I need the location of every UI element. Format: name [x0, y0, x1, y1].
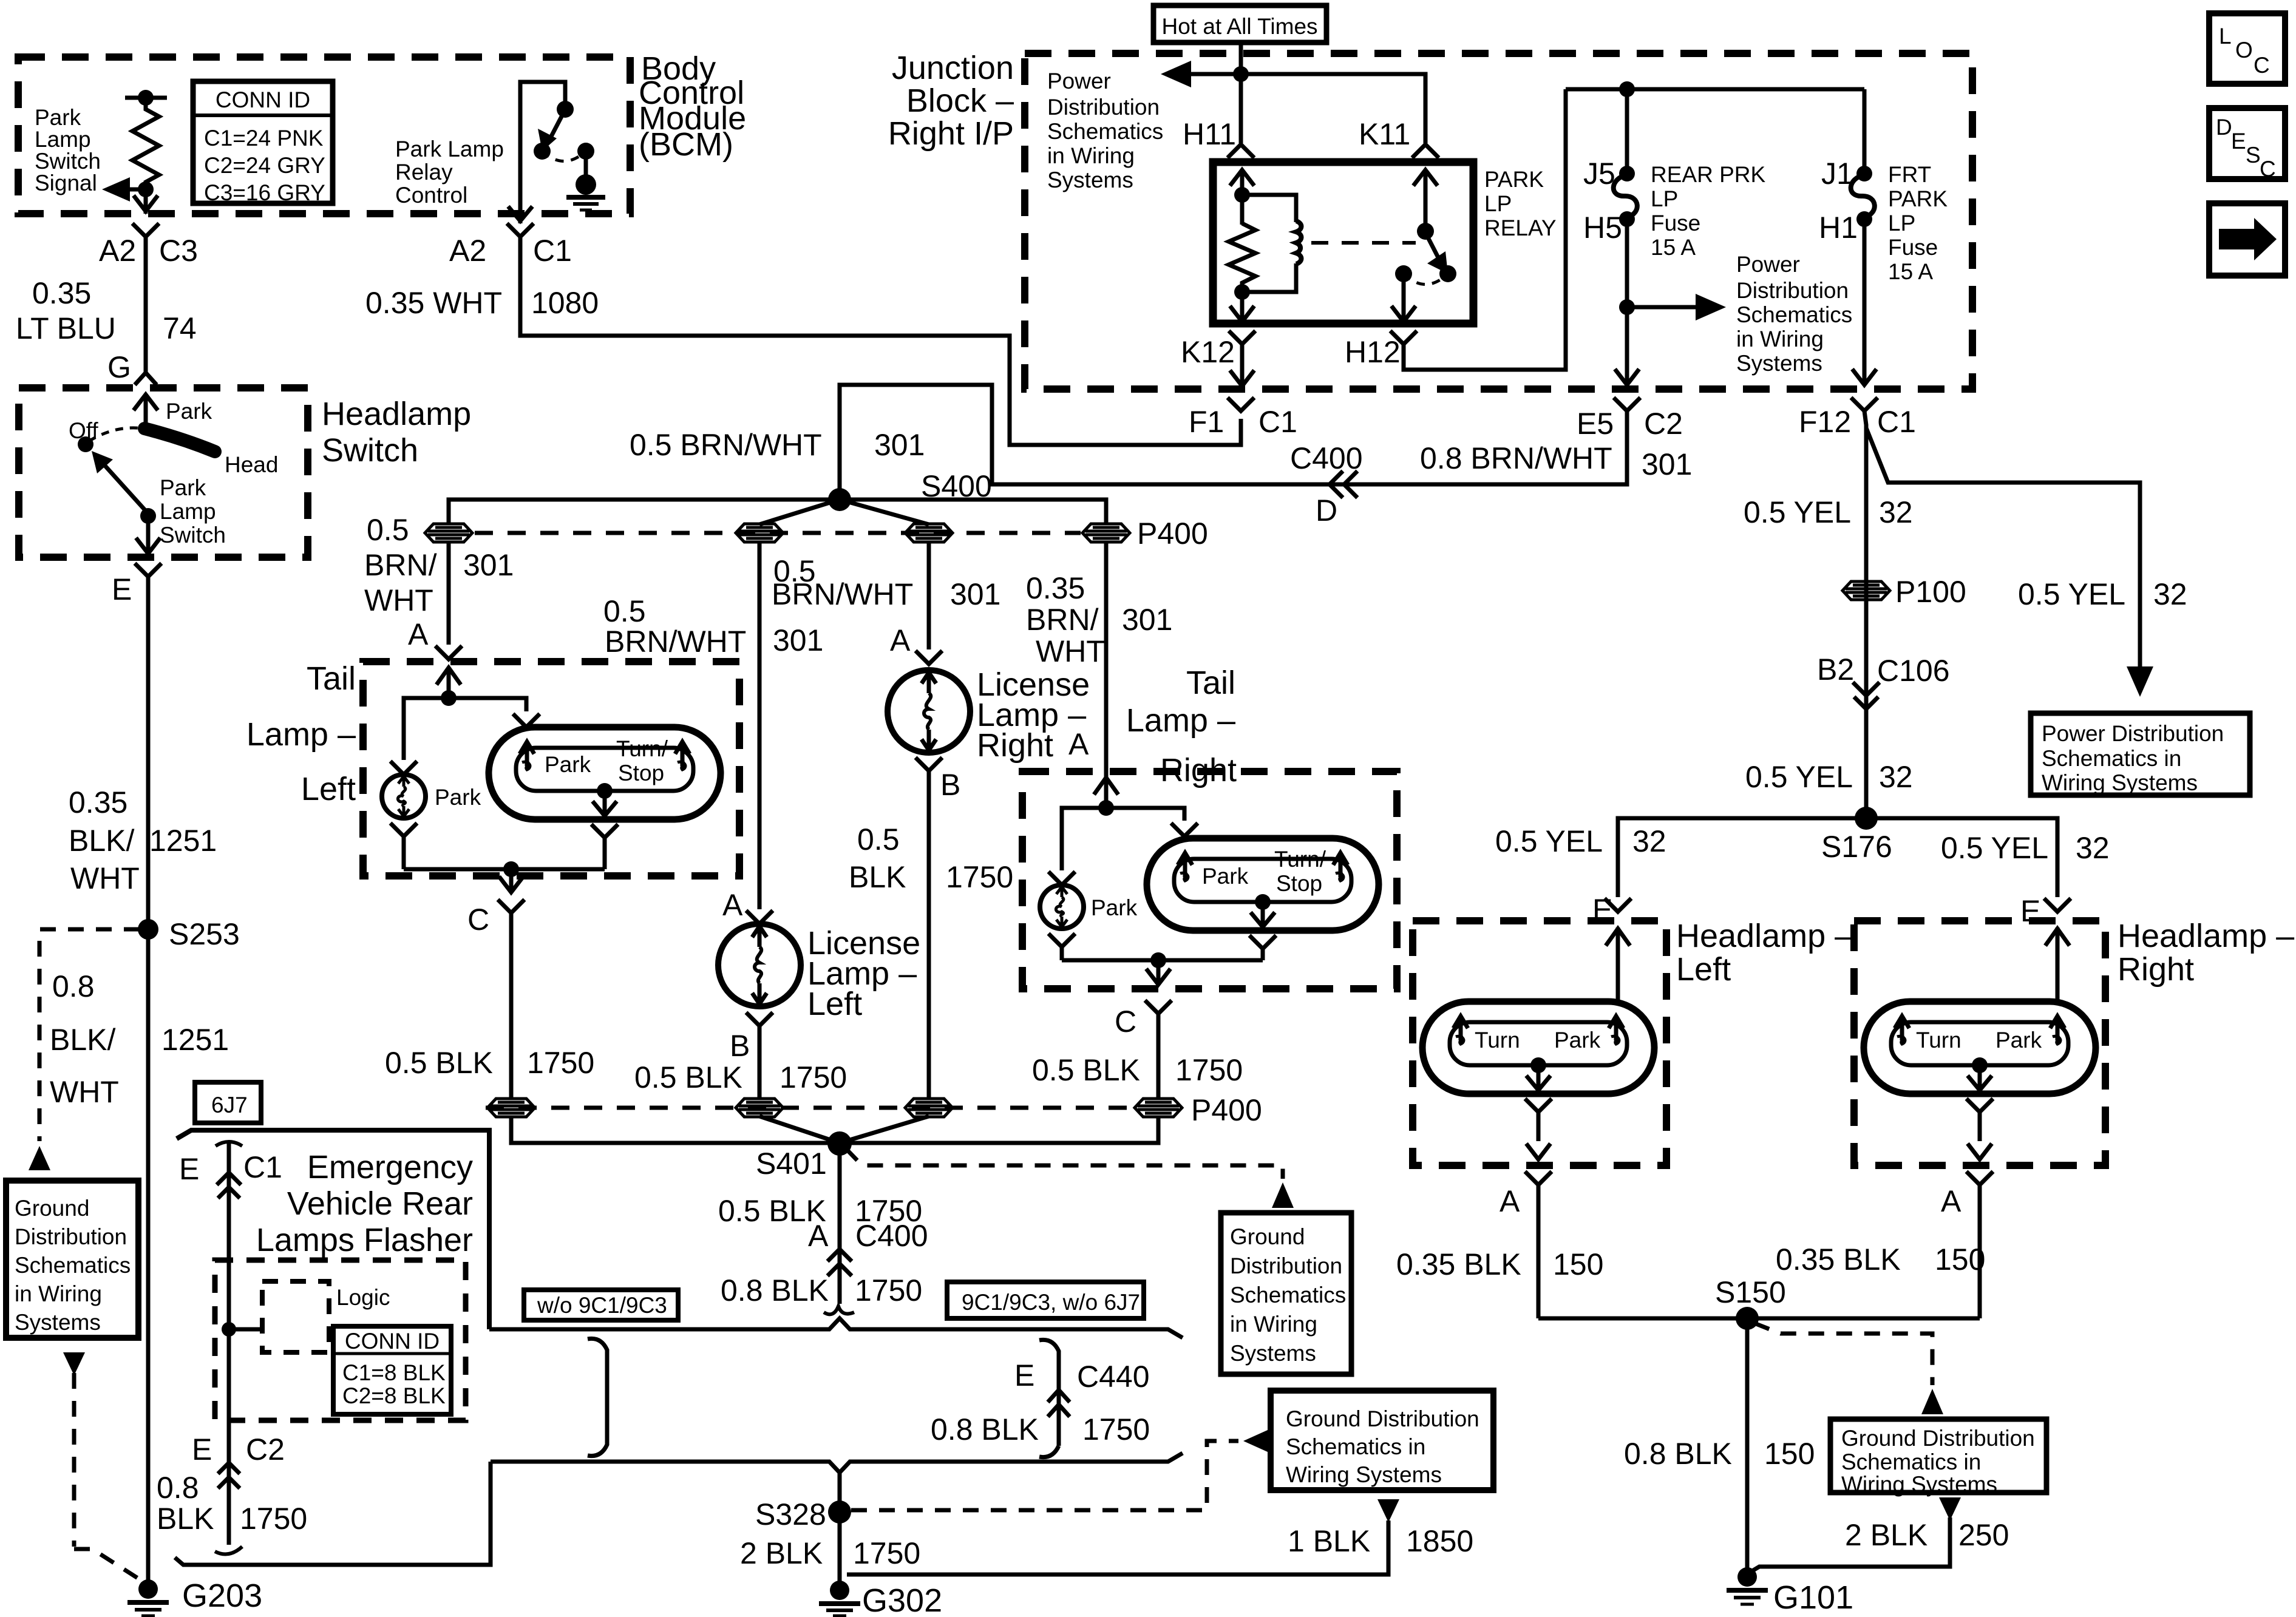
- svg-text:E: E: [1014, 1358, 1034, 1392]
- svg-text:Distribution: Distribution: [1736, 278, 1849, 303]
- svg-text:C3: C3: [159, 234, 198, 268]
- svg-text:G: G: [107, 350, 131, 384]
- svg-text:C: C: [2254, 53, 2270, 78]
- svg-text:Right: Right: [977, 727, 1053, 764]
- svg-text:Right I/P: Right I/P: [888, 115, 1014, 152]
- svg-text:32: 32: [1879, 760, 1913, 794]
- off contact dot: [78, 436, 93, 452]
- svg-text:150: 150: [1935, 1242, 1985, 1276]
- splice S150 rail: [1538, 1317, 1980, 1321]
- svg-text:Schematics: Schematics: [1736, 302, 1852, 327]
- dual filament lamp tail left: [489, 727, 721, 819]
- svg-text:301: 301: [874, 428, 925, 462]
- 6J7 label box: [195, 1082, 261, 1123]
- svg-text:Schematics: Schematics: [1047, 119, 1163, 144]
- legend arrow box: [2209, 203, 2285, 276]
- wire arrow to power distribution: [1187, 72, 1241, 76]
- svg-text:in Wiring: in Wiring: [15, 1281, 102, 1306]
- node hot feed junction: [1233, 66, 1249, 82]
- wire line B to S328: [838, 1473, 842, 1584]
- svg-text:Distribution: Distribution: [1230, 1253, 1342, 1278]
- tail lamp left dashed box: [363, 662, 739, 876]
- junction block label: [888, 50, 1014, 152]
- svg-text:P400: P400: [1137, 517, 1208, 551]
- svg-text:WHT: WHT: [50, 1075, 119, 1109]
- svg-text:Distribution: Distribution: [15, 1224, 127, 1249]
- svg-text:0.35 BLK: 0.35 BLK: [1396, 1247, 1521, 1281]
- wire label 0.8 BLK/WHT 1251: [50, 969, 229, 1109]
- BCM internal ground: [584, 151, 588, 176]
- park bulb tail lamp right: [1040, 885, 1084, 929]
- svg-text:BLK/: BLK/: [50, 1023, 116, 1057]
- tail lamp right park branch: [1048, 808, 1106, 885]
- legend DESC box: [2209, 108, 2285, 179]
- svg-text:0.8 BLK: 0.8 BLK: [1624, 1437, 1732, 1471]
- svg-text:Hot at All Times: Hot at All Times: [1161, 14, 1317, 39]
- fuse FRT PARK LP J1/H1: [1863, 89, 1867, 168]
- park bulb tail lamp left: [382, 775, 426, 818]
- connector A into tail lamp left: [435, 646, 462, 659]
- relay mech dashed link: [1311, 241, 1416, 245]
- svg-text:0.5: 0.5: [857, 822, 900, 856]
- inline connector P400b drop3: [905, 1099, 953, 1117]
- svg-text:Lamp: Lamp: [160, 499, 216, 524]
- connector E/C1 into EVRL: [216, 1142, 242, 1146]
- svg-text:0.8 BRN/WHT: 0.8 BRN/WHT: [1420, 441, 1612, 475]
- svg-text:Left: Left: [807, 986, 862, 1022]
- svg-text:F12: F12: [1799, 405, 1851, 439]
- connector F12/C1: [1851, 398, 1878, 411]
- svg-text:0.5 YEL: 0.5 YEL: [1941, 831, 2048, 865]
- svg-text:P400: P400: [1191, 1093, 1262, 1127]
- svg-text:301: 301: [1642, 447, 1692, 481]
- svg-text:0.35: 0.35: [69, 785, 127, 819]
- park lamp relay control label: [395, 137, 504, 208]
- svg-text:BRN/WHT: BRN/WHT: [772, 577, 913, 611]
- svg-text:H1: H1: [1819, 211, 1858, 245]
- svg-text:Emergency: Emergency: [307, 1149, 473, 1185]
- svg-text:A2: A2: [449, 234, 486, 268]
- svg-text:w/o 9C1/9C3: w/o 9C1/9C3: [537, 1293, 667, 1318]
- svg-text:REAR PRK: REAR PRK: [1651, 162, 1765, 187]
- tail lamp right park bulb lower chevron: [1048, 934, 1075, 960]
- svg-text:C2: C2: [1644, 407, 1683, 441]
- relay switch pin K11 arrow: [1413, 170, 1438, 226]
- svg-text:J1: J1: [1821, 157, 1853, 191]
- svg-text:C440: C440: [1077, 1360, 1150, 1394]
- svg-text:LP: LP: [1651, 186, 1678, 211]
- license lamp right bulb: [915, 651, 942, 664]
- svg-text:1750: 1750: [779, 1060, 847, 1094]
- svg-text:A: A: [1941, 1184, 1961, 1218]
- connector C below tail lamp right: [1145, 1000, 1172, 1100]
- svg-text:PARK: PARK: [1484, 167, 1544, 192]
- svg-text:0.5 BRN/WHT: 0.5 BRN/WHT: [630, 428, 822, 462]
- wire drop2 to license lamp left: [758, 541, 762, 909]
- svg-text:0.5 YEL: 0.5 YEL: [1744, 495, 1851, 529]
- svg-text:C2: C2: [246, 1432, 285, 1466]
- svg-text:0.5: 0.5: [603, 594, 646, 628]
- inline connector P400 drop3: [905, 524, 953, 542]
- S176 right rail to headlamp right: [1866, 818, 2057, 897]
- svg-text:L: L: [2219, 24, 2232, 49]
- svg-text:32: 32: [1632, 824, 1666, 858]
- svg-text:0.5 BLK: 0.5 BLK: [1032, 1053, 1140, 1087]
- svg-text:PARK: PARK: [1888, 186, 1948, 211]
- wire 1 BLK 1850: [1377, 1499, 1399, 1522]
- wire hot feed to K11: [1241, 74, 1425, 143]
- svg-text:C: C: [467, 903, 489, 937]
- tail lamp left park branch: [390, 698, 449, 775]
- svg-text:O: O: [2235, 38, 2253, 63]
- svg-text:S: S: [2246, 143, 2261, 168]
- tail lamp right turn branch: [1106, 808, 1198, 836]
- tail lamp left park bulb lower chevron: [390, 823, 417, 869]
- svg-text:S328: S328: [755, 1497, 826, 1531]
- park lamp switch label: [160, 475, 226, 547]
- headlamp left dashed box: [1413, 921, 1666, 1165]
- conn id table EVRL: [333, 1326, 451, 1414]
- svg-text:FRT: FRT: [1888, 162, 1931, 187]
- svg-text:BLK: BLK: [157, 1502, 214, 1536]
- splice S176: [1855, 807, 1878, 830]
- svg-text:S253: S253: [169, 917, 240, 951]
- svg-text:0.8: 0.8: [52, 969, 95, 1003]
- svg-text:Signal: Signal: [35, 171, 97, 195]
- svg-text:Park: Park: [1091, 895, 1138, 920]
- svg-text:0.8 BLK: 0.8 BLK: [931, 1412, 1039, 1446]
- svg-text:Lamp –: Lamp –: [1126, 702, 1235, 739]
- svg-text:C1: C1: [243, 1150, 282, 1184]
- tail lamp left lamp bottom: [597, 783, 613, 799]
- svg-text:1750: 1750: [1082, 1412, 1150, 1446]
- node logic tap: [222, 1322, 236, 1337]
- S176 left rail to headlamp left: [1618, 818, 1866, 897]
- svg-text:C2=8 BLK: C2=8 BLK: [342, 1383, 446, 1408]
- node tail lamp right junction: [1098, 800, 1114, 816]
- svg-text:Park: Park: [1995, 1028, 2042, 1053]
- inline connector P400b drop2: [736, 1099, 783, 1117]
- dual filament lamp tail right: [1147, 838, 1379, 931]
- svg-text:Power: Power: [1736, 252, 1800, 277]
- tail lamp left turn branch: [449, 698, 540, 727]
- legend LOC box: [2209, 13, 2285, 84]
- svg-text:Systems: Systems: [1736, 351, 1822, 376]
- svg-text:H11: H11: [1183, 117, 1236, 151]
- connector G in-line chevrons: [135, 373, 157, 385]
- BCM output driver switch: [520, 82, 565, 223]
- S400 left rail: [449, 500, 840, 524]
- svg-text:Park: Park: [35, 105, 81, 130]
- wire drop4 to tail lamp right: [1104, 541, 1109, 783]
- svg-text:Power: Power: [1047, 69, 1111, 93]
- ground distribution box left: [6, 1181, 138, 1338]
- svg-text:Park: Park: [1554, 1028, 1601, 1053]
- 9C1/9C3 w/o 6J7 label box: [947, 1282, 1144, 1318]
- wire label 0.35 BLK/WHT 1251: [69, 785, 217, 895]
- headlamp left lamp bottom: [1530, 1057, 1546, 1073]
- svg-text:G302: G302: [862, 1582, 942, 1617]
- relay coil down arrow to K12: [1230, 292, 1254, 322]
- svg-text:Stop: Stop: [618, 761, 664, 785]
- svg-text:K11: K11: [1359, 117, 1410, 151]
- svg-text:Power Distribution: Power Distribution: [2042, 721, 2224, 746]
- svg-text:B: B: [730, 1029, 750, 1063]
- license lamp right label: [977, 666, 1090, 764]
- svg-text:Relay: Relay: [395, 160, 453, 185]
- svg-text:0.5 YEL: 0.5 YEL: [2018, 577, 2125, 611]
- svg-text:1750: 1750: [946, 860, 1013, 894]
- svg-text:Turn: Turn: [1916, 1028, 1961, 1053]
- svg-text:B2: B2: [1817, 653, 1854, 686]
- off dashed arc: [89, 428, 143, 441]
- splice S400: [828, 488, 851, 511]
- node tail lamp right out: [1150, 952, 1166, 968]
- resistor in relay: [1229, 223, 1255, 292]
- BCM label: [639, 50, 746, 163]
- headlamp switch dashed box: [19, 388, 308, 557]
- svg-text:0.35: 0.35: [1026, 571, 1085, 605]
- wire branch to power distribution: [1866, 428, 2140, 671]
- svg-text:Logic: Logic: [336, 1285, 390, 1310]
- body control module BCM dashed box: [18, 57, 630, 214]
- svg-text:Park: Park: [160, 475, 206, 500]
- svg-text:S176: S176: [1821, 830, 1892, 864]
- node tail lamp left junction: [441, 690, 457, 706]
- fuse REAR PRK LP J5/H5: [1625, 89, 1629, 168]
- svg-text:Park Lamp: Park Lamp: [395, 137, 504, 161]
- svg-text:Wiring Systems: Wiring Systems: [1841, 1472, 1997, 1497]
- wire label 0.35 LT BLU 74: [16, 276, 197, 384]
- svg-text:S401: S401: [756, 1147, 827, 1181]
- svg-text:Wiring Systems: Wiring Systems: [2042, 770, 2198, 795]
- switch wiper arrow: [103, 464, 148, 514]
- node relay coil bottom: [1234, 284, 1250, 300]
- svg-text:Schematics in: Schematics in: [2042, 746, 2181, 771]
- svg-text:Wiring Systems: Wiring Systems: [1286, 1462, 1442, 1487]
- svg-text:Systems: Systems: [15, 1310, 101, 1335]
- ground distribution box mid: [1271, 1391, 1493, 1490]
- svg-text:150: 150: [1553, 1247, 1603, 1281]
- svg-text:BLK/: BLK/: [69, 824, 135, 858]
- node relay coil top: [1240, 186, 1245, 225]
- ground distribution box right: [1830, 1419, 2046, 1493]
- relay coil branch: [1242, 195, 1296, 222]
- svg-text:D: D: [2216, 115, 2232, 140]
- headlamp right dual filament lamp: [1864, 1002, 2096, 1094]
- svg-text:1750: 1750: [240, 1502, 307, 1536]
- svg-text:WHT: WHT: [1036, 634, 1105, 668]
- svg-text:Right: Right: [1160, 752, 1237, 788]
- relay switch down arrow to H12: [1391, 274, 1416, 322]
- wire 2 BLK 250 from box to G101: [1939, 1497, 1961, 1520]
- switch lever thick arc: [144, 429, 215, 452]
- svg-text:C400: C400: [855, 1219, 928, 1253]
- svg-text:F1: F1: [1189, 405, 1224, 439]
- connector F1/C1: [1228, 398, 1254, 411]
- svg-text:1 BLK: 1 BLK: [1288, 1524, 1370, 1558]
- svg-text:C1: C1: [533, 234, 572, 268]
- svg-text:WHT: WHT: [70, 861, 140, 895]
- EVRL module outline: [177, 1130, 489, 1329]
- svg-text:0.8: 0.8: [157, 1471, 199, 1505]
- wire fuse to E5 with branch arrow: [1615, 219, 1639, 385]
- svg-text:CONN ID: CONN ID: [345, 1329, 440, 1354]
- wire down-arrow BCM relay control: [508, 206, 532, 221]
- svg-text:0.5 YEL: 0.5 YEL: [1745, 760, 1853, 794]
- svg-text:in Wiring: in Wiring: [1047, 143, 1135, 168]
- svg-text:250: 250: [1958, 1518, 2009, 1552]
- relay switch pivot: [1417, 223, 1434, 240]
- svg-text:BRN/WHT: BRN/WHT: [605, 625, 746, 659]
- svg-text:Headlamp: Headlamp: [322, 396, 471, 432]
- connector E below headlamp switch: [135, 563, 161, 929]
- svg-text:WHT: WHT: [364, 583, 433, 617]
- junction block dashed box: [1025, 53, 1972, 389]
- svg-text:32: 32: [2153, 577, 2187, 611]
- park lp relay box: [1213, 162, 1473, 324]
- svg-text:A: A: [808, 1219, 829, 1253]
- svg-text:1080: 1080: [531, 286, 599, 320]
- svg-text:C1=8 BLK: C1=8 BLK: [342, 1360, 446, 1385]
- fuse rail: [1566, 87, 1864, 92]
- tail lamp right label: [1126, 665, 1237, 788]
- ground G302: [830, 1581, 849, 1600]
- park lamp switch signal label: [35, 105, 101, 195]
- svg-text:Switch: Switch: [35, 149, 101, 174]
- svg-text:LP: LP: [1888, 211, 1915, 236]
- resistor R in BCM: [125, 96, 167, 100]
- svg-text:Headlamp –: Headlamp –: [2118, 918, 2294, 954]
- wire arrow to signal: [124, 188, 146, 192]
- svg-text:301: 301: [1122, 603, 1172, 637]
- svg-text:C1=24 PNK: C1=24 PNK: [204, 126, 324, 151]
- svg-text:Tail: Tail: [307, 660, 356, 697]
- svg-text:Switch: Switch: [160, 523, 226, 547]
- connector C400 chevrons: [827, 1249, 852, 1276]
- wire H12 to fuse rail: [1404, 89, 1566, 370]
- splice S401: [827, 1131, 852, 1156]
- EVRL inner dashed box: [215, 1260, 466, 1420]
- svg-text:Systems: Systems: [1230, 1341, 1316, 1366]
- conn id table BCM: [193, 81, 333, 205]
- tail lamp right lamp bottom: [1255, 894, 1271, 910]
- svg-text:CONN ID: CONN ID: [216, 87, 310, 112]
- dashed connector line P400 bottom: [486, 1106, 1141, 1110]
- wire down-arrow at BCM edge: [134, 195, 158, 211]
- ground distribution box narrow: [1221, 1213, 1351, 1374]
- svg-text:RELAY: RELAY: [1484, 215, 1557, 240]
- svg-text:15 A: 15 A: [1651, 235, 1696, 260]
- relay label: [1484, 167, 1557, 240]
- wire C2 to option line B: [175, 1462, 491, 1565]
- svg-text:6J7: 6J7: [211, 1093, 248, 1117]
- svg-text:Systems: Systems: [1047, 168, 1133, 192]
- svg-text:0.35 WHT: 0.35 WHT: [365, 286, 502, 320]
- dashed wire S253 to ground distribution: [39, 929, 140, 1141]
- relay contacts: [1395, 265, 1412, 282]
- svg-text:LP: LP: [1484, 191, 1512, 216]
- node park lamp switch signal junction: [138, 181, 154, 197]
- svg-text:1850: 1850: [1406, 1524, 1473, 1558]
- headlamp right dashed box: [1854, 921, 2105, 1165]
- svg-text:Turn: Turn: [1475, 1028, 1520, 1053]
- svg-text:0.5 BLK: 0.5 BLK: [634, 1060, 742, 1094]
- svg-text:Fuse: Fuse: [1888, 235, 1938, 260]
- wire drop1 to tail lamp left: [447, 541, 451, 645]
- svg-text:32: 32: [1879, 495, 1913, 529]
- svg-text:1750: 1750: [527, 1046, 594, 1080]
- svg-text:0.35 BLK: 0.35 BLK: [1776, 1242, 1901, 1276]
- svg-text:E: E: [179, 1152, 199, 1186]
- svg-text:Control: Control: [395, 183, 467, 208]
- svg-text:Stop: Stop: [1276, 871, 1322, 896]
- wire S401 down to C400: [838, 1144, 842, 1304]
- svg-text:Ground: Ground: [15, 1196, 89, 1221]
- option line A: [824, 1306, 854, 1314]
- svg-text:Park: Park: [166, 399, 212, 424]
- svg-text:Lamp: Lamp: [35, 127, 91, 152]
- svg-text:(BCM): (BCM): [639, 126, 733, 163]
- headlamp right lamp bottom: [1972, 1057, 1988, 1073]
- svg-text:Left: Left: [301, 771, 356, 807]
- power distribution schematics label (JB): [1047, 69, 1163, 192]
- logic dashed box: [262, 1281, 329, 1352]
- svg-text:15 A: 15 A: [1888, 259, 1933, 284]
- license lamp left label: [807, 925, 920, 1022]
- dashed wire S401 to ground distribution narrow: [846, 1149, 1283, 1179]
- option line B: [491, 1453, 1183, 1473]
- svg-text:H5: H5: [1583, 211, 1622, 245]
- svg-text:A: A: [890, 623, 911, 657]
- svg-text:Ground Distribution: Ground Distribution: [1841, 1426, 2035, 1451]
- node rear fuse tap: [1619, 81, 1635, 97]
- svg-text:E: E: [192, 1432, 212, 1466]
- svg-text:1750: 1750: [1175, 1053, 1243, 1087]
- svg-text:0.5 YEL: 0.5 YEL: [1495, 824, 1603, 858]
- connector A below headlamp left: [1525, 1171, 1552, 1318]
- headlamp right feed arrow: [2045, 927, 2070, 1002]
- relay coil pin H11 arrow: [1230, 170, 1254, 200]
- inline connector P400 drop2: [736, 524, 783, 542]
- connector A2/C1 below BCM: [507, 223, 534, 237]
- connector C below tail lamp left: [498, 900, 525, 1100]
- svg-text:E5: E5: [1577, 407, 1614, 441]
- svg-text:H12: H12: [1345, 335, 1401, 369]
- tail lamp right feed arrow: [1094, 778, 1118, 808]
- svg-text:Left: Left: [1676, 951, 1731, 988]
- svg-text:301: 301: [463, 548, 514, 582]
- license lamp left lower chevron B: [746, 1012, 773, 1100]
- hot at all times box: [1153, 5, 1326, 42]
- svg-text:A: A: [408, 617, 429, 651]
- svg-text:A: A: [1500, 1184, 1520, 1218]
- tail lamp right bottom rail: [1062, 949, 1263, 960]
- svg-text:Park: Park: [1202, 864, 1249, 889]
- svg-text:1251: 1251: [161, 1023, 229, 1057]
- svg-text:Fuse: Fuse: [1651, 211, 1700, 236]
- tail lamp right dashed box: [1022, 771, 1397, 989]
- license lamp left bulb: [746, 910, 773, 924]
- dashed wire ground distribution to G203: [63, 1352, 85, 1375]
- svg-text:A2: A2: [99, 234, 136, 268]
- svg-text:BRN/: BRN/: [1026, 603, 1099, 637]
- headlamp left dual filament lamp: [1422, 1002, 1654, 1094]
- inline connector P400 drop1: [425, 524, 472, 542]
- svg-text:C: C: [1115, 1005, 1136, 1039]
- svg-text:Distribution: Distribution: [1047, 95, 1160, 120]
- svg-text:Lamps Flasher: Lamps Flasher: [256, 1222, 473, 1258]
